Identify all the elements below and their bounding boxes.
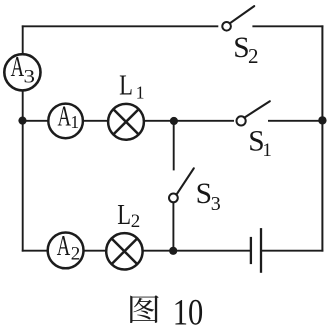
wire: [83, 250, 106, 252]
svg-text:2: 2: [71, 243, 81, 264]
node (L1 right junction): [170, 117, 178, 125]
wire: [83, 120, 109, 122]
node (bottom junction): [169, 247, 177, 255]
label S2: [233, 32, 258, 68]
label L1: [119, 69, 144, 102]
svg-text:L: L: [119, 69, 133, 101]
wire: [22, 25, 219, 27]
wire: [22, 25, 24, 54]
svg-text:1: 1: [136, 82, 145, 102]
wire: [143, 250, 251, 252]
wire: [22, 90, 24, 251]
ammeter A3: [4, 51, 40, 91]
node (right junction): [318, 116, 326, 124]
svg-text:A: A: [57, 230, 71, 262]
wire: [23, 120, 49, 122]
wire: [22, 250, 48, 252]
svg-text:10: 10: [173, 293, 204, 330]
svg-text:3: 3: [24, 67, 36, 88]
battery (cell): [251, 228, 261, 273]
ammeter A1: [48, 100, 83, 138]
wire: [321, 25, 323, 251]
ammeter A2: [48, 230, 84, 268]
wire: [268, 120, 322, 122]
svg-text:1: 1: [262, 140, 272, 161]
node (left junction): [18, 117, 26, 125]
wire: [173, 121, 175, 171]
caption 图 10: [130, 293, 203, 330]
lamp L2: [106, 233, 142, 269]
svg-text:L: L: [117, 199, 131, 231]
svg-text:A: A: [58, 100, 72, 132]
switch S1: [237, 101, 270, 125]
label S3: [196, 178, 221, 215]
svg-text:3: 3: [211, 193, 221, 215]
lamp L1: [108, 104, 144, 140]
wire: [252, 25, 323, 27]
wire: [262, 250, 323, 252]
svg-text:S: S: [196, 178, 212, 210]
wire: [172, 202, 174, 250]
switch S3: [169, 168, 194, 202]
label L2: [117, 199, 140, 232]
svg-text:2: 2: [248, 44, 259, 68]
wire: [144, 120, 234, 122]
svg-text:A: A: [11, 51, 25, 83]
switch S2: [222, 6, 254, 31]
svg-text:1: 1: [70, 112, 79, 132]
label S1: [248, 125, 272, 161]
svg-text:2: 2: [131, 211, 141, 232]
